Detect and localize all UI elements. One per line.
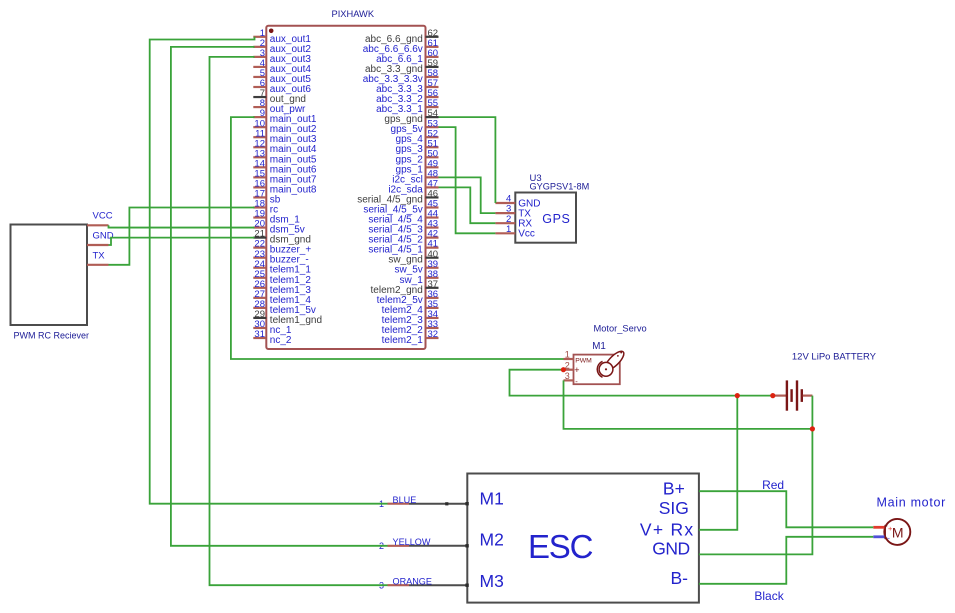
- RC receiver pin TX: [87, 250, 109, 264]
- svg-text:nc_2: nc_2: [270, 335, 292, 346]
- svg-text:GYGPSV1-8M: GYGPSV1-8M: [530, 182, 590, 192]
- svg-text:M2: M2: [480, 530, 504, 550]
- U1 PIXHAWK pin 20 (dsm_5v) left: [253, 219, 305, 236]
- IC U1 pin-1 origin dot: [269, 29, 274, 34]
- svg-text:telem2_1: telem2_1: [382, 335, 424, 346]
- U1 PIXHAWK pin 45 (serial_4/5_5v) right: [363, 199, 438, 216]
- svg-text:BLUE: BLUE: [393, 495, 417, 505]
- U1 PIXHAWK pin 62 (abc_6.6_gnd) right: [365, 28, 439, 45]
- svg-text:SIG: SIG: [659, 498, 689, 518]
- U1 PIXHAWK pin 21 (dsm_gnd) left: [253, 229, 311, 246]
- Servo M1 pin 2: [564, 360, 574, 370]
- U1 PIXHAWK pin 26 (telem1_3) left: [253, 279, 311, 296]
- U1 PIXHAWK pin 47 (i2c_sda) right: [388, 179, 438, 196]
- junction servo pin2: [561, 367, 566, 372]
- svg-text:+: +: [574, 365, 579, 375]
- svg-text:31: 31: [254, 329, 265, 340]
- RC receiver pin GND: [87, 230, 114, 245]
- U1 PIXHAWK pin 50 (gps_2) right: [396, 148, 439, 165]
- U1 PIXHAWK pin 42 (serial_4/5_2) right: [368, 229, 438, 246]
- wire RC receiver GND to PIXHAWK pin21 dsm_gnd: [109, 238, 255, 245]
- wire PIXHAWK pin3 aux_out3 to ESC M3 (ORANGE): [210, 57, 388, 585]
- U1 PIXHAWK pin 3 (aux_out3) left: [253, 48, 311, 65]
- U1 PIXHAWK pin 46 (serial_4/5_gnd) right: [357, 189, 438, 206]
- U1 PIXHAWK pin 37 (telem2_gnd) right: [371, 279, 439, 296]
- U1 PIXHAWK pin 30 (nc_1) left: [253, 319, 292, 336]
- U1 PIXHAWK pin 23 (buzzer_-) left: [253, 249, 308, 266]
- wire battery negative down to ESC GND: [699, 396, 813, 555]
- svg-text:B-: B-: [671, 568, 689, 588]
- svg-text:ESC: ESC: [528, 528, 593, 565]
- U1 PIXHAWK pin 4 (aux_out4) left: [253, 58, 311, 75]
- GPS module U3 body: [515, 193, 576, 243]
- Main motor M symbol: [873, 519, 910, 545]
- wire RC receiver VCC to PIXHAWK pin20 dsm_5v: [109, 225, 255, 227]
- ESC M1 wire-pin junction dot: [445, 502, 448, 505]
- wire PIXHAWK pin47 i2c_sda to GPS pin2 RX: [439, 187, 496, 223]
- U3 GPS pin 2 (RX): [495, 214, 532, 230]
- U3 GPS pin 1 (Vcc): [495, 224, 534, 240]
- wire PIXHAWK pin54 gps_gnd to GPS pin4 GND: [439, 117, 496, 203]
- wire ESC B+ to Main motor + (Red): [699, 491, 873, 527]
- U1 PIXHAWK pin 33 (telem2_2) right: [382, 319, 439, 336]
- Servo glyph (motor with horn): [597, 349, 626, 378]
- U1 PIXHAWK pin 25 (telem1_2) left: [253, 269, 311, 286]
- U1 PIXHAWK pin 34 (telem2_3) right: [382, 309, 439, 326]
- U1 PIXHAWK pin 11 (main_out3) left: [253, 128, 317, 145]
- U1 PIXHAWK pin 39 (sw_5v) right: [394, 259, 438, 276]
- svg-text:1: 1: [565, 350, 570, 360]
- svg-text:3: 3: [565, 371, 570, 381]
- U1 PIXHAWK pin 10 (main_out2) left: [253, 118, 317, 135]
- U1 PIXHAWK pin 5 (aux_out5) left: [253, 68, 311, 85]
- ESC body: [467, 474, 699, 603]
- U1 PIXHAWK pin 51 (gps_3) right: [396, 138, 439, 155]
- U1 PIXHAWK pin 7 (out_gnd) left: [253, 88, 306, 105]
- svg-text:GPS: GPS: [542, 212, 570, 226]
- U3 GPS pin 3 (TX): [495, 204, 531, 220]
- svg-text:M3: M3: [480, 571, 504, 591]
- U1 PIXHAWK pin 55 (abc_3.3_1) right: [376, 98, 438, 115]
- U1 PIXHAWK pin 14 (main_out6) left: [253, 158, 317, 175]
- U1 PIXHAWK pin 8 (out_pwr) left: [253, 98, 306, 115]
- svg-text:V+ Rx: V+ Rx: [640, 519, 695, 539]
- U1 PIXHAWK pin 28 (telem1_5v) left: [253, 299, 316, 316]
- wire PIXHAWK pin2 aux_out2 to ESC M2 (YELLOW): [171, 47, 388, 546]
- svg-text:Black: Black: [754, 589, 784, 603]
- svg-text:Motor_Servo: Motor_Servo: [594, 324, 647, 334]
- U1 PIXHAWK pin 19 (dsm_1) left: [253, 209, 300, 226]
- U1 PIXHAWK pin 22 (buzzer_+) left: [253, 239, 311, 256]
- RC receiver pin VCC: [87, 210, 113, 225]
- U1 PIXHAWK pin 53 (gps_5v) right: [391, 118, 439, 135]
- junction battery + / V+ rail: [735, 393, 740, 398]
- U3 GPS pin 4 (GND): [495, 194, 540, 210]
- svg-text:M: M: [892, 524, 904, 540]
- junction battery + terminal: [770, 393, 775, 398]
- U1 PIXHAWK pin 41 (serial_4/5_1) right: [368, 239, 438, 256]
- ESC input pin 3 (ORANGE) stub: [379, 577, 469, 591]
- svg-text:Red: Red: [762, 478, 784, 492]
- svg-text:B+: B+: [663, 478, 685, 498]
- svg-text:PWM RC Reciever: PWM RC Reciever: [14, 330, 90, 340]
- U1 PIXHAWK pin 2 (aux_out2) left: [253, 38, 311, 55]
- wire servo pin2 + to battery positive rail: [510, 370, 773, 396]
- wire RC receiver TX to PIXHAWK pin18 rc: [109, 207, 255, 264]
- Servo M1 body: [574, 355, 620, 385]
- battery BT1 symbol: [773, 380, 813, 410]
- wire battery positive to ESC V+ Rx: [699, 396, 737, 530]
- U1 PIXHAWK pin 60 (abc_6.6_1) right: [376, 48, 438, 65]
- svg-text:1: 1: [506, 224, 511, 235]
- U1 PIXHAWK pin 17 (sb) left: [253, 189, 280, 206]
- svg-text:M1: M1: [480, 489, 504, 509]
- U1 PIXHAWK pin 9 (main_out1) left: [253, 108, 317, 125]
- U1 PIXHAWK pin 6 (aux_out6) left: [253, 78, 311, 95]
- Servo M1 pin 1: [564, 350, 574, 360]
- U1 PIXHAWK pin 54 (gps_gnd) right: [384, 108, 438, 125]
- svg-text:M1: M1: [592, 341, 606, 352]
- IC U1 PIXHAWK body: [266, 26, 425, 349]
- svg-text:VCC: VCC: [93, 210, 113, 221]
- U1 PIXHAWK pin 58 (abc_3.3_3.3v) right: [363, 68, 439, 85]
- svg-text:GND: GND: [652, 539, 689, 559]
- ESC input pin 2 (YELLOW) stub: [379, 537, 469, 551]
- U1 PIXHAWK pin 35 (telem2_4) right: [382, 299, 439, 316]
- U1 PIXHAWK pin 24 (telem1_1) left: [253, 259, 311, 276]
- svg-text:TX: TX: [93, 250, 106, 261]
- svg-text:ORANGE: ORANGE: [393, 577, 432, 587]
- U1 PIXHAWK pin 12 (main_out4) left: [253, 138, 317, 155]
- U1 PIXHAWK pin 27 (telem1_4) left: [253, 289, 311, 306]
- U1 PIXHAWK pin 31 (nc_2) left: [253, 329, 292, 346]
- wire PIXHAWK pin9 main_out1 to servo pin1 PWM: [231, 117, 564, 359]
- U1 PIXHAWK pin 1 (aux_out1) left: [253, 28, 311, 45]
- U1 PIXHAWK pin 49 (gps_1) right: [396, 158, 439, 175]
- ESC input pin 1 (BLUE) stub: [379, 495, 469, 509]
- U1 PIXHAWK pin 16 (main_out8) left: [253, 179, 317, 196]
- wire Main motor - to ESC B- (Black): [699, 537, 873, 584]
- U1 PIXHAWK pin 59 (abc_3.3_gnd) right: [365, 58, 439, 75]
- U1 PIXHAWK pin 13 (main_out5) left: [253, 148, 317, 165]
- U1 PIXHAWK pin 43 (serial_4/5_3) right: [368, 219, 438, 236]
- U1 PIXHAWK pin 40 (sw_gnd) right: [388, 249, 438, 266]
- svg-text:Main motor: Main motor: [877, 495, 947, 509]
- svg-text:12V LiPo BATTERY: 12V LiPo BATTERY: [792, 352, 877, 363]
- U1 PIXHAWK pin 32 (telem2_1) right: [382, 329, 439, 346]
- U1 PIXHAWK pin 38 (sw_1) right: [399, 269, 438, 286]
- U1 PIXHAWK pin 44 (serial_4/5_4) right: [368, 209, 438, 226]
- U1 PIXHAWK pin 18 (rc) left: [253, 199, 278, 216]
- U1 PIXHAWK pin 15 (main_out7) left: [253, 168, 317, 185]
- U1 PIXHAWK pin 61 (abc_6.6_6.6v) right: [363, 38, 439, 55]
- junction battery - rail: [810, 426, 815, 431]
- svg-text:PIXHAWK: PIXHAWK: [332, 9, 375, 19]
- PWM RC Receiver body: [11, 225, 88, 326]
- U1 PIXHAWK pin 57 (abc_3.3_3) right: [376, 78, 438, 95]
- wire servo pin3 - to battery negative rail: [564, 380, 813, 429]
- svg-text:32: 32: [428, 329, 439, 340]
- U1 PIXHAWK pin 36 (telem2_5v) right: [377, 289, 439, 306]
- svg-text:PWM: PWM: [575, 358, 592, 365]
- U1 PIXHAWK pin 56 (abc_3.3_2) right: [376, 88, 438, 105]
- Servo M1 pin 3: [564, 371, 574, 381]
- svg-text:Vcc: Vcc: [518, 229, 535, 240]
- svg-text:YELLOW: YELLOW: [393, 537, 431, 547]
- wire PIXHAWK pin53 gps_5v to GPS pin1 Vcc: [439, 127, 496, 233]
- wire PIXHAWK pin1 aux_out1 to ESC M1 (BLUE): [150, 37, 388, 504]
- svg-text:-: -: [887, 534, 890, 543]
- U1 PIXHAWK pin 48 (i2c_scl) right: [392, 168, 438, 185]
- wire PIXHAWK pin48 i2c_scl to GPS pin3 TX: [439, 177, 496, 213]
- U1 PIXHAWK pin 29 (telem1_gnd) left: [253, 309, 322, 326]
- U1 PIXHAWK pin 52 (gps_4) right: [396, 128, 439, 145]
